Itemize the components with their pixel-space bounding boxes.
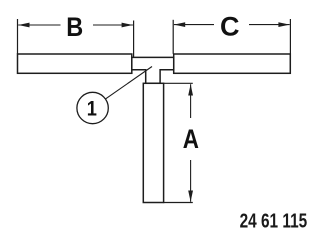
- leader line from callout 1 to T-connector: [106, 67, 152, 99]
- hose B (left horizontal pipe): [18, 54, 132, 73]
- svg-text:B: B: [66, 12, 83, 42]
- svg-text:A: A: [183, 125, 199, 154]
- hose A (vertical pipe): [143, 83, 163, 202]
- dimension B extension line left: [17, 19, 19, 54]
- dimension A line top segment: [190, 84, 192, 118]
- dimension C extension line left: [172, 20, 174, 54]
- dimension C line left segment: [174, 24, 214, 26]
- dimension A extension line top: [164, 82, 193, 84]
- dimension B left arrowhead: [18, 23, 29, 28]
- hose C (right horizontal pipe): [174, 54, 291, 73]
- dimension A bottom arrowhead: [188, 191, 193, 202]
- dimension A line bottom segment: [190, 160, 192, 202]
- T-connector body: [132, 57, 174, 83]
- dimension A top arrowhead: [188, 84, 193, 95]
- svg-text:1: 1: [87, 97, 97, 121]
- svg-text:C: C: [220, 12, 240, 42]
- dimension A extension line bottom: [164, 202, 193, 204]
- dimension C line right segment: [249, 24, 290, 26]
- dimension C left arrowhead: [174, 22, 185, 27]
- dimension B extension line right: [133, 21, 135, 58]
- dimension B line right segment: [93, 24, 133, 26]
- svg-text:24 61 115: 24 61 115: [240, 209, 308, 231]
- dimension B right arrowhead: [122, 23, 133, 28]
- dimension C right arrowhead: [278, 22, 289, 27]
- callout circle 1: [77, 92, 108, 123]
- dimension B line left segment: [18, 24, 60, 26]
- dimension C extension line right: [289, 19, 291, 54]
